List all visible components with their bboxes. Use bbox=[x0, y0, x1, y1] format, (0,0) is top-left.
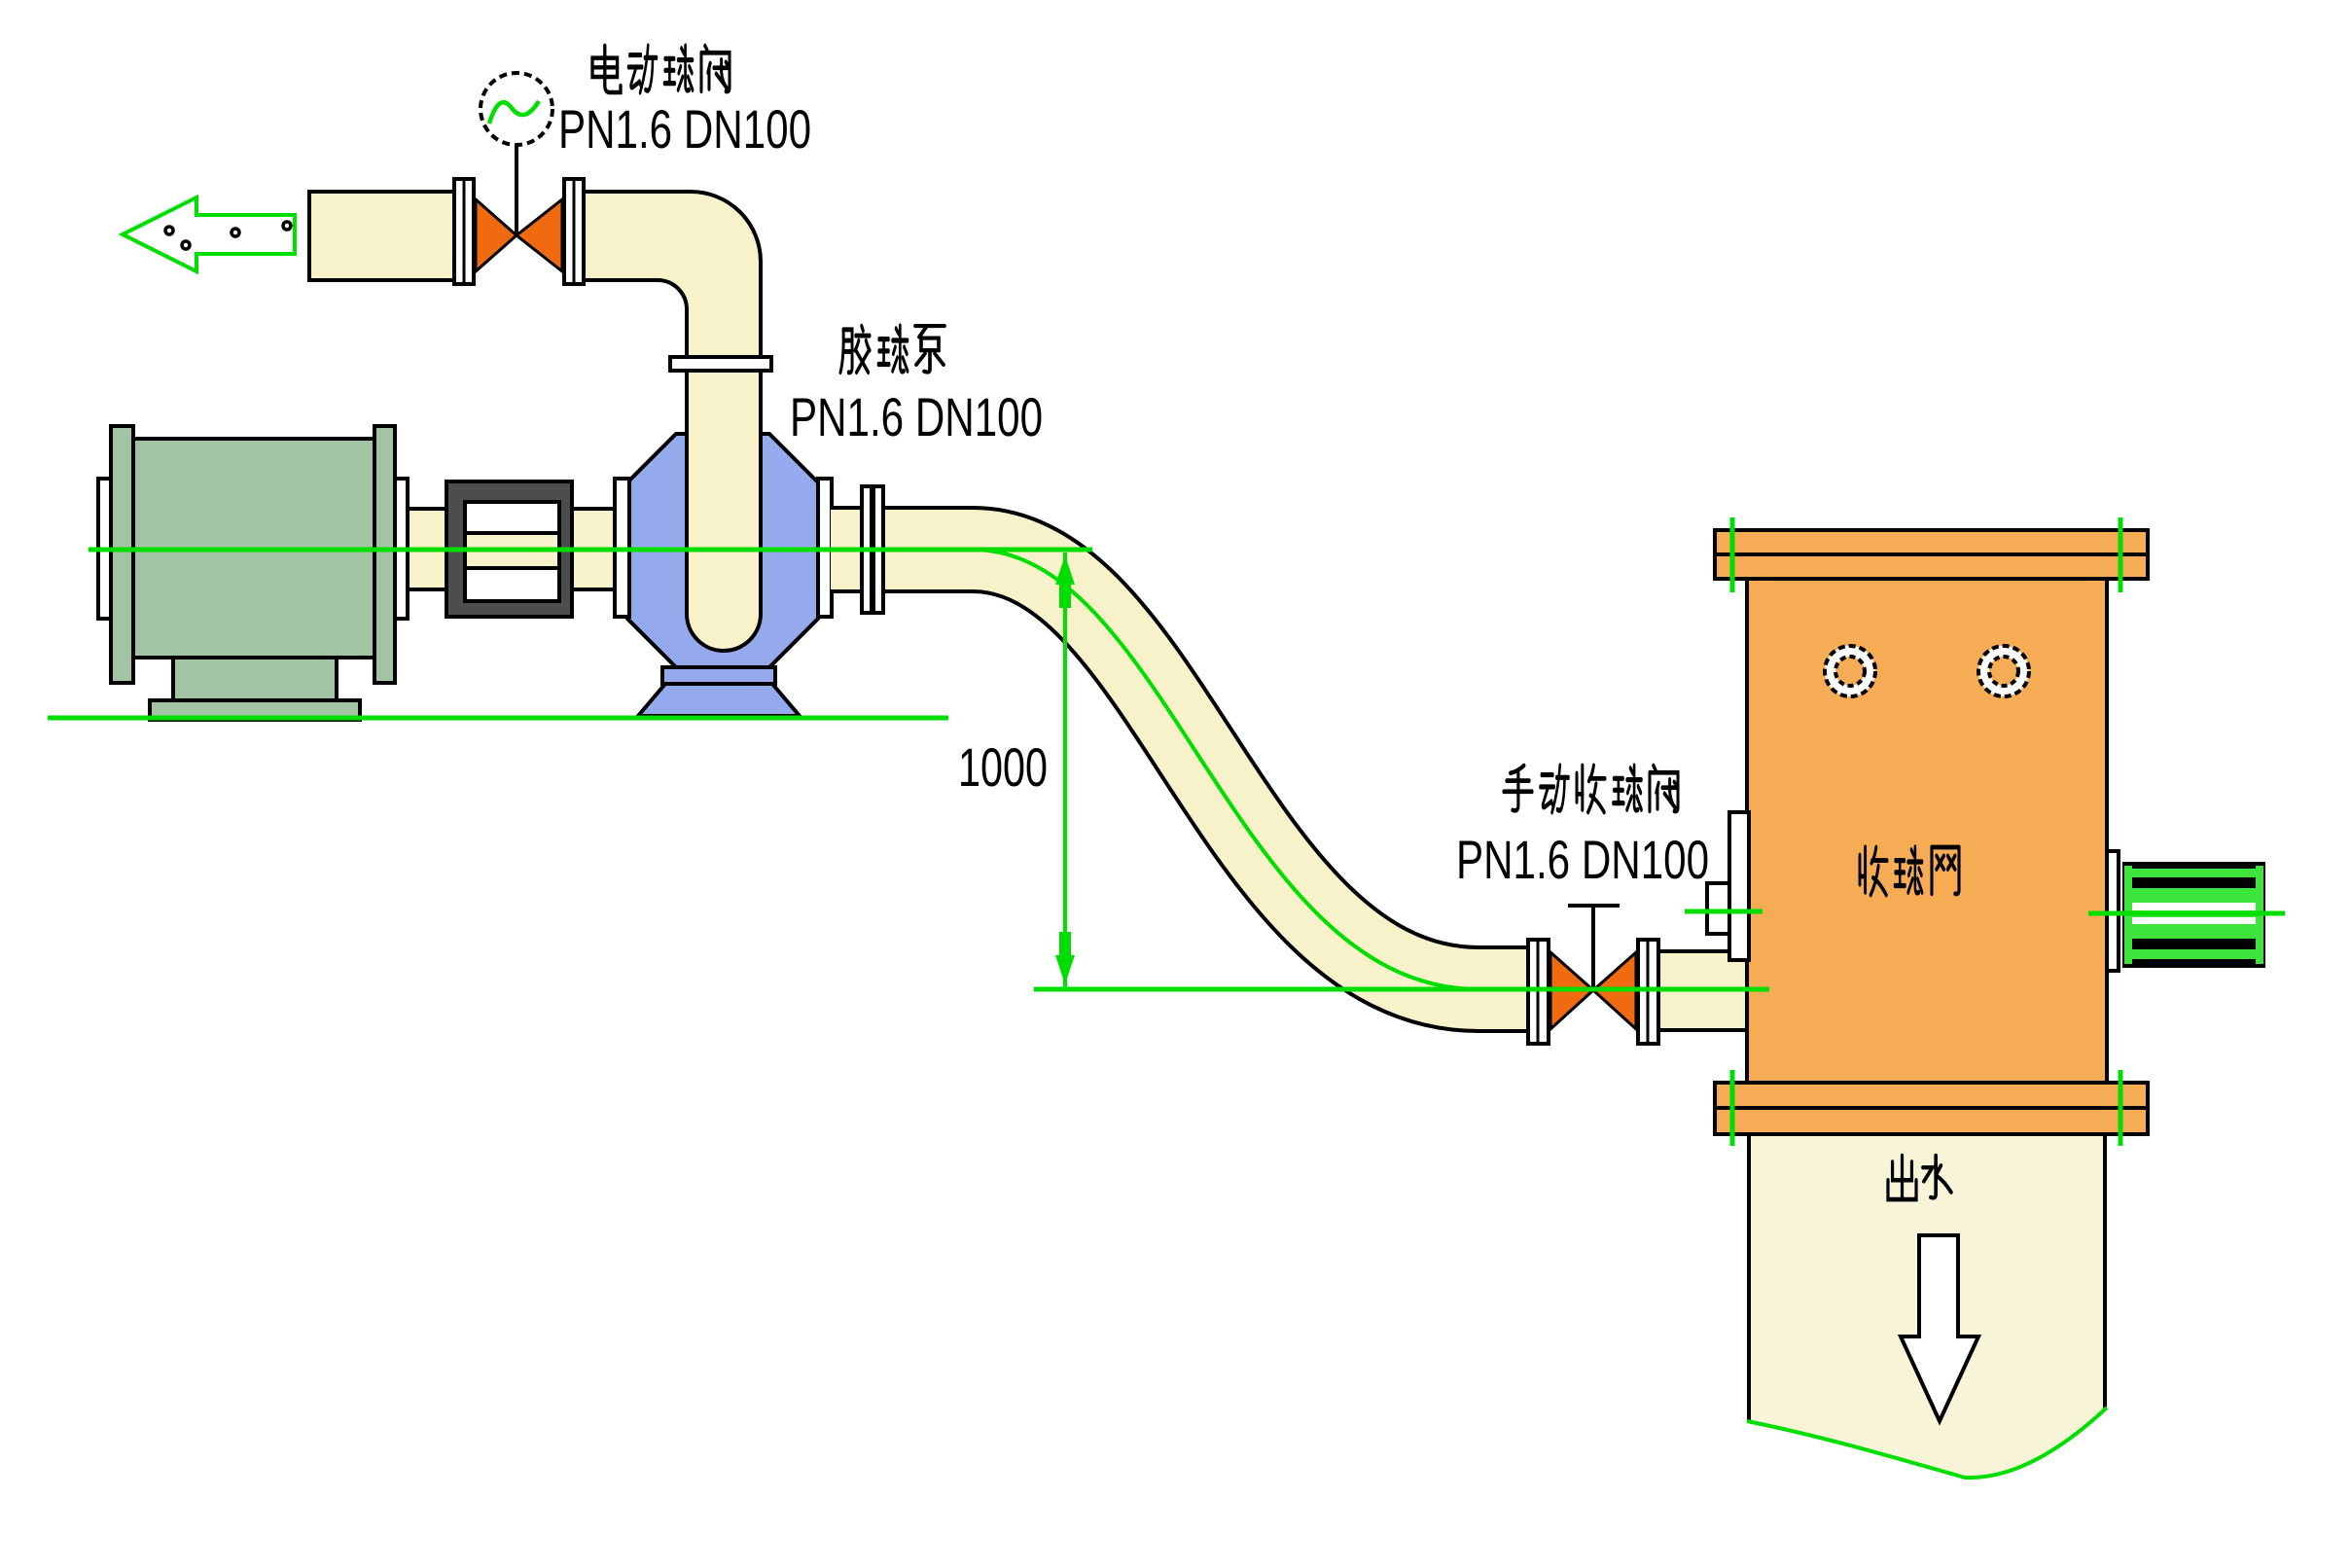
suction pipe from arrow to valve bbox=[309, 192, 454, 280]
tank left branch plate bbox=[1729, 812, 1749, 960]
S-curve pipe fill bbox=[831, 550, 1530, 989]
svg-text:PN1.6 DN100: PN1.6 DN100 bbox=[790, 386, 1043, 447]
label: 电动球阀 bbox=[592, 46, 730, 92]
right nozzle stub bbox=[2107, 851, 2119, 971]
coupling outer frame bbox=[446, 481, 572, 617]
motor M1 right flange bbox=[395, 479, 408, 619]
S-curve pipe outline bbox=[831, 550, 1528, 989]
electric actuator circle bbox=[481, 73, 552, 145]
electric ball valve right flange bbox=[564, 179, 584, 284]
dimension bottom arrowhead bbox=[1055, 932, 1075, 984]
svg-text:PN1.6 DN100: PN1.6 DN100 bbox=[558, 98, 811, 160]
manual valve body (bow-tie) bbox=[1550, 952, 1636, 1029]
label: 胶球泵 bbox=[840, 326, 944, 373]
outlet break wavy line bbox=[1747, 1408, 2107, 1478]
outlet duct below tank bbox=[1749, 1136, 2105, 1478]
label: 收球网 bbox=[1860, 847, 1959, 895]
motor M1 base upper step bbox=[173, 658, 337, 700]
svg-text:1000: 1000 bbox=[958, 736, 1048, 798]
label: 手动收球阀 bbox=[1504, 766, 1678, 812]
tank inlet pipe bbox=[1658, 951, 1751, 1030]
pipe flange bar on vertical riser bbox=[670, 357, 771, 371]
motor M1 left flange bbox=[98, 479, 113, 619]
tank nozzle circle right bbox=[1978, 646, 2029, 696]
electric ball valve left flange bbox=[454, 179, 474, 284]
ground line bbox=[48, 716, 948, 721]
pump/motor centerline bbox=[89, 548, 1092, 552]
manual valve right flange bbox=[1638, 940, 1658, 1044]
valve/tank inlet centerline bbox=[1034, 987, 1769, 992]
manual valve left flange bbox=[1528, 940, 1549, 1044]
motor M1 base lower step bbox=[150, 700, 360, 720]
tank bottom flange bbox=[1715, 1083, 2148, 1134]
manual valve T-handle bbox=[1568, 906, 1620, 990]
S-curve pipe green centerline bbox=[958, 550, 1493, 989]
outlet down arrow bbox=[1901, 1235, 1978, 1421]
electric actuator stem bbox=[515, 146, 518, 235]
motor M1 left end cap bbox=[111, 426, 133, 683]
svg-text:PN1.6 DN100: PN1.6 DN100 bbox=[1456, 829, 1709, 890]
green ticks top flange bbox=[1732, 517, 2120, 592]
tank top flange bbox=[1715, 530, 2148, 579]
pump P1 right flange bbox=[818, 479, 832, 617]
pump P1 octagonal casing bbox=[627, 434, 818, 667]
shaft left segment bbox=[408, 509, 446, 589]
label: 出水 bbox=[1888, 1156, 1951, 1199]
branch crosshair bbox=[1685, 909, 1763, 914]
tank nozzle circle left bbox=[1825, 646, 1875, 696]
pump P1 foot bbox=[638, 684, 800, 716]
collecting tank body bbox=[1747, 579, 2107, 1083]
coupling shaft slat bbox=[465, 533, 559, 568]
brush drive centerline bbox=[2088, 911, 2285, 916]
green ticks bottom flange bbox=[1732, 1070, 2120, 1146]
discharge elbow pipe with suction U inside pump bbox=[584, 192, 761, 651]
brush drive motor (striped) bbox=[2122, 862, 2265, 968]
electric ball valve body (bow-tie) bbox=[476, 199, 562, 271]
coupling inner opening bbox=[465, 502, 559, 601]
shaft right segment bbox=[572, 509, 617, 589]
actuator wave symbol bbox=[489, 101, 539, 124]
pump P1 left flange bbox=[615, 479, 629, 617]
pump P1 pedestal band bbox=[662, 667, 775, 684]
dimension top arrowhead bbox=[1055, 555, 1075, 608]
flange pair at pump outlet bbox=[862, 486, 883, 613]
outlet duct walls bbox=[1749, 1136, 2105, 1422]
motor M1 right end cap bbox=[374, 426, 395, 683]
ball discharge arrow bbox=[123, 197, 295, 271]
tank left branch box bbox=[1707, 883, 1729, 934]
dimension vertical line bbox=[1063, 552, 1067, 987]
rubber ball marks in arrow bbox=[165, 222, 291, 249]
motor M1 body bbox=[133, 439, 374, 658]
